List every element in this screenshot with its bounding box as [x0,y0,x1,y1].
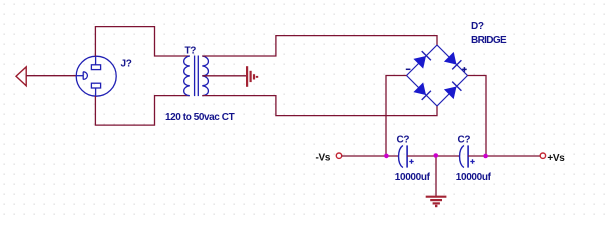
ground (filter midpoint earth) [426,197,447,206]
junction bridge minus rail [384,154,389,159]
wire C1 to middle junction to C2 [407,155,460,157]
capacitor C2 [460,145,475,167]
svg-text:+Vs: +Vs [547,153,565,164]
wire J bottom to transformer primary bottom [95,96,189,126]
bridge plus mark [462,67,467,72]
junction bridge plus rail [483,154,488,159]
capacitor C1 [399,145,414,167]
svg-text:BRIDGE: BRIDGE [471,35,507,46]
bridge D? diagonals [407,45,468,106]
svg-text:120 to 50vac CT: 120 to 50vac CT [165,112,235,123]
diode lower-right [445,82,462,99]
port -Vs [336,153,341,158]
port +Vs [540,153,545,158]
transformer T? [184,56,209,97]
wire bridge minus to -Vs rail [386,76,407,157]
wire transformer secondary top to bridge top [202,36,437,56]
wire arrow to connector J? [26,75,76,77]
svg-text:-Vs: -Vs [316,153,331,164]
wire middle junction to ground [435,156,437,196]
wire bridge plus to +Vs rail [468,76,487,157]
diode upper-left [414,51,431,68]
diode upper-right [445,53,462,70]
wire transformer secondary bottom to bridge bottom [202,96,437,116]
svg-text:C?: C? [397,135,410,146]
diode lower-left [414,83,431,100]
wire -Vs port to C1 [342,155,399,157]
svg-text:10000uf: 10000uf [456,172,492,183]
junction filter midpoint [434,153,439,158]
wire C2 to +Vs port [468,155,540,157]
bridge minus mark [406,68,411,70]
ground (center tap, rotated earth) [247,66,257,87]
wire J top to transformer primary top [95,27,189,57]
wire transformer center tap to earth [202,75,246,77]
svg-text:C?: C? [458,135,471,146]
svg-text:D?: D? [471,21,484,32]
input port arrow [16,67,26,86]
svg-text:J?: J? [121,59,132,70]
connector J? [76,56,116,96]
svg-text:10000uf: 10000uf [395,172,431,183]
svg-text:T?: T? [185,46,197,57]
